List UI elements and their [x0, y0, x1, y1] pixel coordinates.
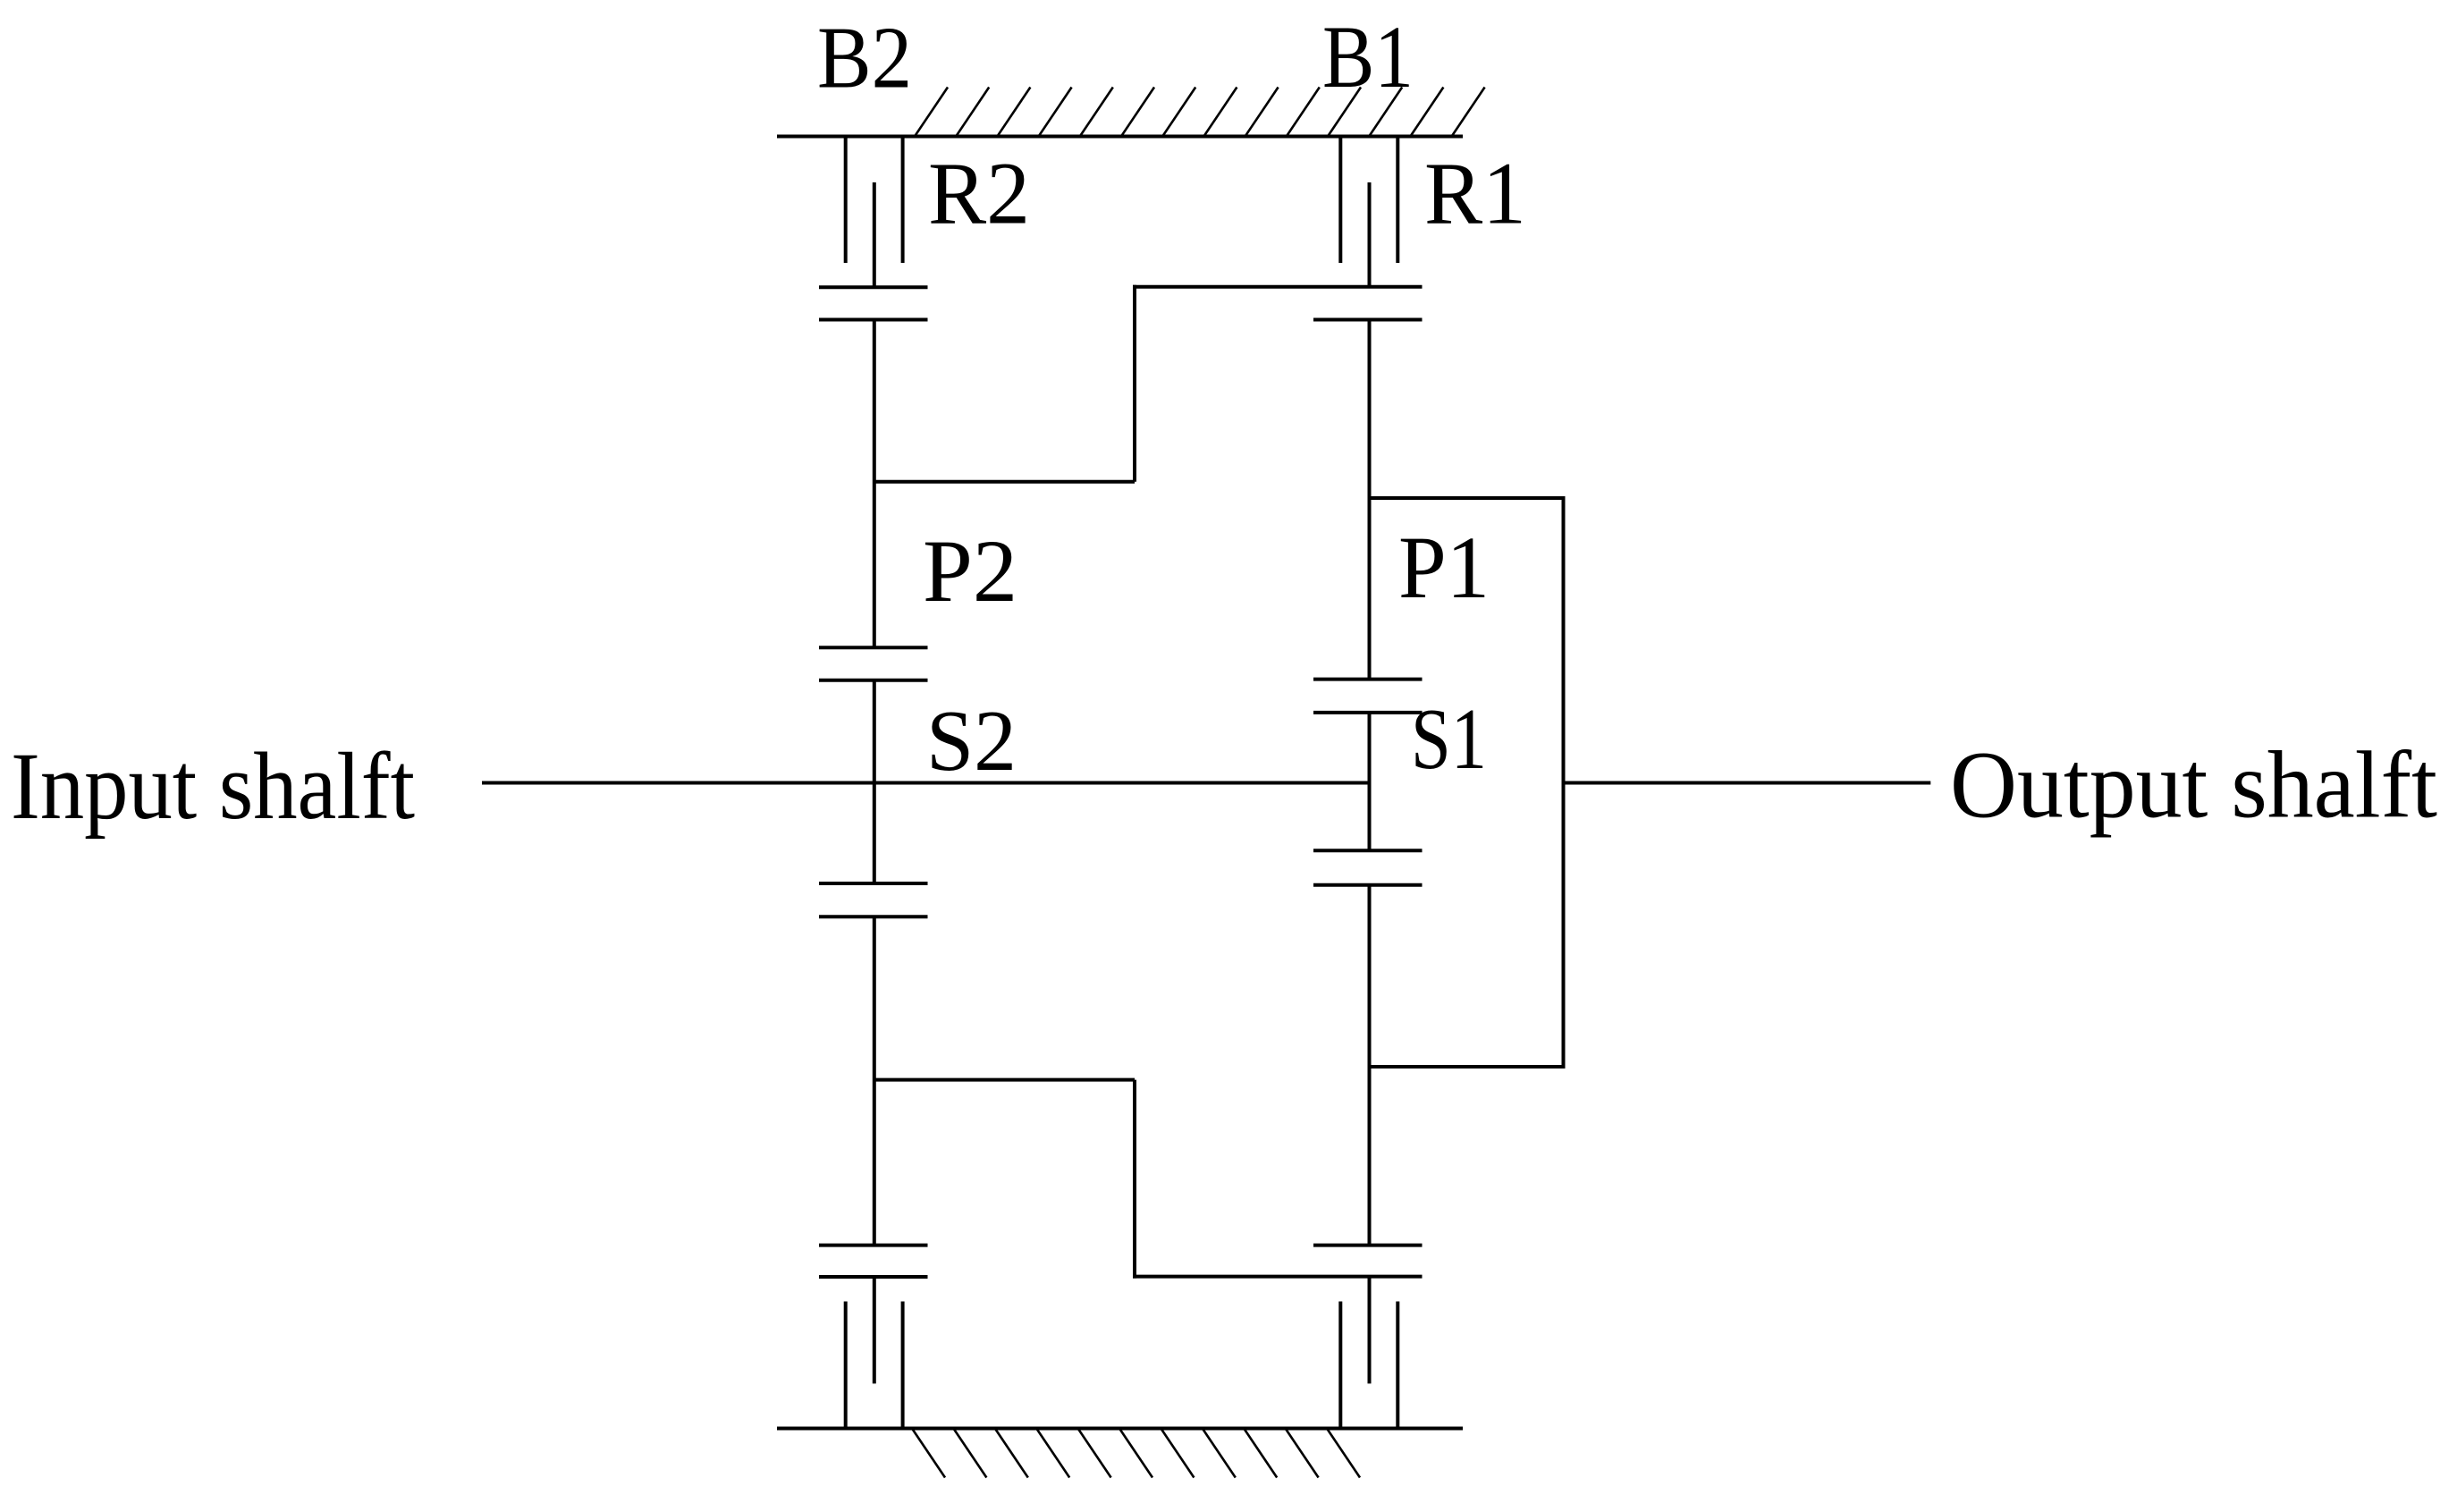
svg-text:B2: B2 [817, 10, 912, 107]
svg-text:B1: B1 [1322, 7, 1414, 106]
brake B2 plate / ring gear R2 line [873, 182, 876, 287]
svg-text:P1: P1 [1398, 518, 1490, 617]
fixed frame bottom hatching [912, 1429, 1360, 1478]
planet P2 line [873, 320, 876, 648]
svg-text:Output shalft: Output shalft [1950, 733, 2437, 839]
fixed frame top hatching [915, 88, 1485, 137]
mirrored planet P1 line [1368, 885, 1372, 1246]
mesh P1-S1 [1313, 680, 1423, 713]
carrier frame rectangle to output [1370, 498, 1564, 1067]
input shaft line [482, 781, 1370, 785]
svg-text:S2: S2 [926, 693, 1017, 789]
planet P1 line [1368, 320, 1372, 680]
svg-text:R2: R2 [928, 144, 1030, 243]
mirrored brake B2 fork [846, 1302, 903, 1429]
mesh P2-S2 [819, 647, 928, 680]
carrier link horizontal (P2 to R1) [874, 480, 1135, 484]
svg-text:R1: R1 [1424, 144, 1526, 243]
mirrored brake B2 plate [873, 1277, 876, 1383]
carrier link vertical [1133, 285, 1136, 482]
mirrored planet P2 line [873, 916, 876, 1245]
mirrored carrier link vertical [1133, 1080, 1136, 1279]
sun S1 line [1368, 713, 1372, 850]
mesh R1-P1 lower bar [1313, 318, 1423, 322]
fixed frame top line [777, 135, 1463, 139]
mirrored brake B1 plate [1368, 1277, 1372, 1384]
svg-text:P2: P2 [923, 521, 1017, 621]
brake B2 fork [846, 137, 903, 264]
output shaft line [1564, 781, 1931, 785]
mirrored brake B1 fork [1340, 1302, 1397, 1429]
mirrored carrier link horizontal [874, 1078, 1135, 1082]
svg-text:S1: S1 [1411, 691, 1487, 787]
svg-text:Input shalft: Input shalft [11, 734, 415, 840]
brake B1 fork [1340, 137, 1397, 264]
mirrored mesh P2-R2 [819, 1246, 928, 1277]
mesh R1-P1 upper bar (long) [1133, 285, 1423, 289]
mirrored mesh P1-R1 upper bar [1313, 1244, 1423, 1247]
fixed frame bottom line [777, 1427, 1463, 1431]
mirrored mesh R1-P1 lower bar (long) [1133, 1275, 1423, 1279]
mirrored mesh S2-P2 [819, 883, 928, 916]
brake B1 plate / ring gear R1 line [1368, 182, 1372, 287]
mesh R2-P2 [819, 287, 928, 319]
mirrored mesh S1-P1 [1313, 850, 1423, 885]
sun S2 line [873, 680, 876, 883]
